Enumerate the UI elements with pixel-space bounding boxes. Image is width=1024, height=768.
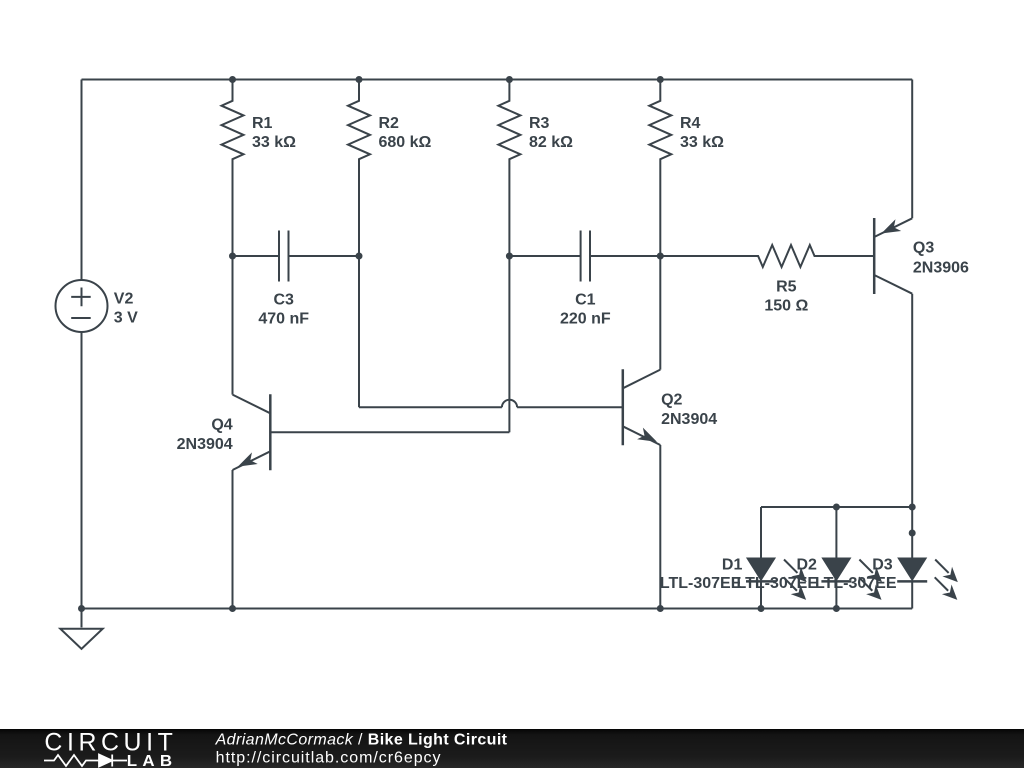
svg-text:150 Ω: 150 Ω xyxy=(764,298,808,315)
svg-text:33 kΩ: 33 kΩ xyxy=(252,134,296,151)
wire R3 node down to Q4 base corner xyxy=(508,256,510,432)
svg-text:AdrianMcCormack / Bike Light C: AdrianMcCormack / Bike Light Circuit xyxy=(215,732,508,749)
wire D3 anode lead xyxy=(911,507,913,559)
svg-text:D3: D3 xyxy=(872,556,893,573)
capacitor C3 470 nF xyxy=(233,231,360,282)
svg-text:3 V: 3 V xyxy=(114,310,138,327)
wire Q3 emitter to top rail xyxy=(911,80,913,219)
resistor R1 33 k xyxy=(222,80,244,257)
svg-text:R3: R3 xyxy=(529,115,550,132)
wire Q4 base to node under R3 xyxy=(270,431,509,433)
logo resistor-diode symbol xyxy=(44,755,127,767)
node LED rail D3 xyxy=(909,504,916,511)
wire Q4 emitter to bottom rail xyxy=(232,470,234,609)
ground xyxy=(60,609,102,649)
node top rail R4 xyxy=(657,76,664,83)
capacitor C1 220 nF xyxy=(509,231,660,282)
svg-text:R4: R4 xyxy=(680,115,701,132)
node C1 left xyxy=(506,253,513,260)
node top rail R2 xyxy=(356,76,363,83)
transistor Q4 2N3904 xyxy=(233,394,271,470)
svg-text:LTL-307EE: LTL-307EE xyxy=(815,575,897,592)
wire top rail xyxy=(82,79,913,81)
node bottom rail ground xyxy=(78,605,85,612)
transistor Q3 2N3906 xyxy=(874,218,912,294)
svg-text:LAB: LAB xyxy=(127,753,178,768)
wire left column bottom (source to ground rail) xyxy=(81,332,83,609)
svg-text:220 nF: 220 nF xyxy=(560,311,611,328)
node bottom rail Q2 xyxy=(657,605,664,612)
node top rail R1 xyxy=(229,76,236,83)
node LED rail D2 xyxy=(833,504,840,511)
resistor R2 680 k xyxy=(348,80,370,257)
wire D2 anode lead xyxy=(835,507,837,559)
wire D1 anode lead xyxy=(760,507,762,559)
wire Q2 collector to C1 right node xyxy=(659,256,661,370)
node C3 right xyxy=(356,253,363,260)
transistor Q2 2N3904 xyxy=(623,369,661,445)
svg-text:R5: R5 xyxy=(776,278,797,295)
LED D2 LTL-307EE xyxy=(821,555,886,609)
wire left column top (V+ to source) xyxy=(81,80,83,281)
wire C3 right node down to Q2 base with hop xyxy=(359,256,623,407)
voltage source V2 3 V xyxy=(56,280,108,332)
wire Q2 emitter to bottom rail xyxy=(659,445,661,609)
wire bottom rail xyxy=(82,608,913,610)
resistor R3 82 k xyxy=(498,80,520,257)
svg-text:Q4: Q4 xyxy=(211,417,232,434)
Q2 emitter arrow xyxy=(637,428,660,448)
svg-text:Q3: Q3 xyxy=(913,240,934,257)
svg-text:R2: R2 xyxy=(379,115,400,132)
svg-text:33 kΩ: 33 kΩ xyxy=(680,134,724,151)
node bottom rail D2 xyxy=(833,605,840,612)
svg-text:470 nF: 470 nF xyxy=(258,311,309,328)
node bottom rail Q4 xyxy=(229,605,236,612)
Q3 emitter arrow (PNP, points to base bar) xyxy=(878,219,901,239)
node C3 left xyxy=(229,253,236,260)
svg-text:D2: D2 xyxy=(797,556,818,573)
LED D3 LTL-307EE xyxy=(897,555,962,609)
svg-text:82 kΩ: 82 kΩ xyxy=(529,134,573,151)
wire Q4 collector to C3 left node xyxy=(232,256,234,395)
node bottom rail D1 xyxy=(758,605,765,612)
svg-text:C1: C1 xyxy=(575,292,596,309)
wire Q3 collector to LED rail xyxy=(911,294,913,507)
svg-text:680 kΩ: 680 kΩ xyxy=(379,134,432,151)
svg-text:R1: R1 xyxy=(252,115,273,132)
svg-text:C3: C3 xyxy=(273,292,294,309)
LED D1 LTL-307EE xyxy=(746,555,811,609)
svg-text:V2: V2 xyxy=(114,291,134,308)
svg-text:http://circuitlab.com/cr6epcy: http://circuitlab.com/cr6epcy xyxy=(216,750,442,767)
Q4 emitter arrow xyxy=(235,452,258,472)
svg-text:LTL-307EE: LTL-307EE xyxy=(737,575,819,592)
svg-text:2N3904: 2N3904 xyxy=(661,411,717,428)
svg-text:LTL-307EE: LTL-307EE xyxy=(660,575,742,592)
svg-text:2N3906: 2N3906 xyxy=(913,260,969,277)
footer bar xyxy=(0,729,1024,768)
svg-text:Q2: Q2 xyxy=(661,392,682,409)
wire LED top rail xyxy=(761,506,912,508)
node D3 anode xyxy=(909,530,916,537)
svg-text:2N3904: 2N3904 xyxy=(177,436,233,453)
svg-text:D1: D1 xyxy=(722,556,743,573)
resistor R4 33 k xyxy=(649,80,671,257)
resistor R5 150 ohm xyxy=(660,245,874,267)
node top rail R3 xyxy=(506,76,513,83)
node C1 right xyxy=(657,253,664,260)
